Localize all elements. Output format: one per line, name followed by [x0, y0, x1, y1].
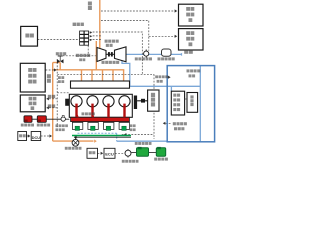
wire sampling block outputs: [90, 32, 143, 74]
label 涡轮增压器: [102, 61, 105, 64]
air filter: [162, 49, 172, 56]
wire speed signal: [47, 107, 58, 109]
common rail: [71, 117, 130, 121]
injection pump 4: [119, 122, 129, 129]
injection pump 2: [88, 122, 98, 129]
wire exhaust bottom run: [53, 140, 94, 142]
label 废气 top: [88, 2, 92, 6]
wire ecu to flowmeter: [115, 152, 125, 154]
engine mount left: [65, 99, 69, 106]
combustion analyzer box: [20, 95, 45, 112]
wire pc to dcu: [27, 135, 30, 137]
ECU box: [104, 148, 115, 158]
rail feed arrow: [123, 115, 125, 118]
cylinder 3: [103, 96, 114, 107]
cylinder 1: [71, 96, 82, 107]
sampling valve block: [80, 31, 84, 34]
wire fuel rack green bus: [72, 135, 131, 137]
wire cooling dashed blue horizontal: [78, 132, 117, 134]
wire buffer to pump: [149, 152, 157, 154]
label 颗粒分析仪: [186, 31, 190, 35]
wire exhaust ticks manifold: [81, 70, 83, 82]
wire sample to gas analyzer: [101, 10, 175, 12]
DCU box: [31, 132, 41, 141]
wire bypass branch: [53, 62, 61, 64]
dynamometer box: [148, 90, 159, 111]
injector 4: [123, 104, 125, 118]
label 燃烧分析仪: [29, 97, 33, 101]
label 中冷水温压力 inner: [187, 69, 190, 72]
wire sample line 2: [101, 21, 149, 51]
svg-text:ECU: ECU: [105, 152, 114, 157]
rail feed arrow: [76, 115, 78, 118]
label 工控 left: [19, 134, 22, 137]
fuel buffer tank: [137, 148, 149, 157]
cooling water unit box: [171, 91, 184, 115]
wire host to sampling block: [38, 39, 80, 41]
fuel pump green: [156, 148, 165, 157]
dyno pc box: [20, 63, 45, 92]
label 汽油油泵: [154, 158, 157, 161]
turbine: [97, 48, 106, 62]
label 扫气温度 tiny: [58, 76, 61, 79]
flywheel: [134, 96, 137, 110]
wire valve-turbine dashed link: [63, 55, 96, 57]
cooling system boundary: [167, 66, 214, 142]
circulating pump: [75, 137, 77, 139]
cylinder 4: [119, 96, 130, 107]
wire engine shaft: [137, 100, 148, 102]
injection pump 1: [72, 122, 82, 129]
label 空气流量计: [135, 57, 138, 60]
wire engine water drop (dashed blue): [116, 133, 118, 141]
wire flowmeter to buffer: [131, 152, 136, 154]
host computer box: [21, 26, 38, 46]
label 主机: [25, 34, 29, 38]
label 燃油流量计: [122, 160, 125, 163]
label 排气温度压力: [76, 54, 79, 57]
wire fuel return line: [74, 136, 131, 138]
intercooler box: [187, 93, 198, 113]
wire cooling water right drop: [199, 66, 201, 141]
label 燃油单元: [37, 124, 40, 127]
label 中冷器: [190, 95, 193, 98]
wire cooler feed: [170, 86, 172, 91]
wire turbine inlet riser: [95, 41, 97, 70]
wire left dashed vertical: [56, 59, 58, 127]
cylinder 2: [87, 96, 98, 107]
label 排气温度压力: [105, 40, 108, 43]
label 测功机上位机: [28, 68, 32, 72]
pc box bottom: [87, 148, 98, 158]
wire exhaust left downcomer: [52, 63, 54, 142]
label 齿条位移信号: [56, 124, 59, 127]
coupling: [141, 99, 145, 103]
wire dyno pc arrow: [46, 69, 57, 71]
rail feed arrow: [108, 115, 110, 118]
wire dyno signal vertical: [153, 74, 155, 139]
label 闭式循环水泵系统: [173, 94, 176, 97]
wire servo pump line: [32, 118, 61, 120]
label 中冷循环水系统: [173, 122, 176, 125]
wire intake air suction line: [126, 53, 182, 55]
wire cooling water bottom return: [117, 140, 168, 142]
air flow meter: [145, 49, 147, 58]
label 工控 bottom: [89, 151, 92, 154]
servo pump 2: [37, 116, 46, 123]
label 测功机: [151, 93, 155, 97]
injection pump 3: [104, 122, 114, 129]
engine block: [69, 94, 132, 117]
svg-text:DCU: DCU: [32, 136, 40, 140]
wire pc2 to ecu: [98, 152, 103, 154]
label 空气滤清器: [158, 57, 161, 60]
label 旁通阀: [56, 52, 59, 55]
wire to particle analyzer: [149, 35, 175, 37]
pc box left: [18, 132, 27, 141]
label 压力: [48, 95, 51, 98]
rail feed arrow: [92, 115, 94, 118]
injector 2: [91, 104, 93, 118]
fuel flow meter: [127, 149, 129, 158]
label 伺服油泵: [21, 124, 24, 127]
wire exhaust collector pipe: [53, 69, 124, 71]
label 烟气分析仪: [186, 7, 190, 11]
servo pump 1: [24, 116, 32, 123]
wire ct sensor arrow: [168, 76, 171, 79]
wire long signal bus: [57, 73, 154, 75]
valve small on servo line: [61, 117, 65, 121]
wire intercooler signal out: [164, 122, 171, 124]
label 回油冷却器: [65, 147, 68, 150]
injector 1: [75, 104, 77, 118]
wire compressor outlet: [122, 61, 130, 87]
wire engine boundary dashed top: [57, 92, 69, 94]
compressor: [115, 47, 127, 62]
label 采样阀: [73, 23, 76, 26]
label 回油温度: [130, 124, 133, 127]
label 中冷温度压力 sensor: [155, 75, 158, 78]
wire exhaust stack up: [99, 0, 101, 49]
wire buffer tank dashes: [122, 134, 154, 136]
wire stack bottom dashed drop: [87, 45, 89, 55]
injector 3: [107, 104, 109, 118]
label 空气: [184, 50, 188, 54]
label 废气 left: [47, 74, 51, 78]
bypass valve: [57, 59, 60, 63]
label 高压油管: [82, 112, 85, 115]
shaft: [106, 53, 115, 55]
wire dcu out: [41, 135, 52, 137]
wire charge air / cooling water top: [130, 85, 201, 87]
label 燃油缓冲罐: [135, 142, 138, 145]
wire pressure signal: [47, 98, 58, 100]
label 转速: [48, 104, 51, 107]
particle analyzer box: [179, 29, 204, 50]
exhaust manifold receiver: [71, 81, 130, 88]
gas analyzer box: [179, 4, 204, 26]
